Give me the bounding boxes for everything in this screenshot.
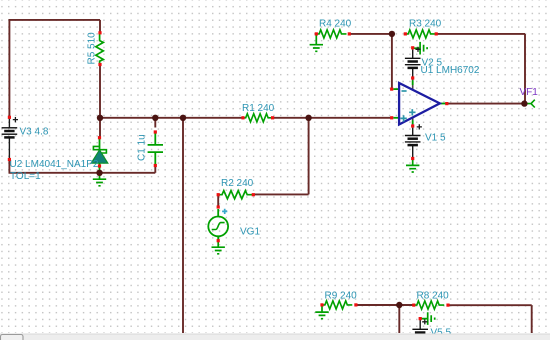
wire R9 junction R8 xyxy=(356,304,414,306)
terminal mark V3 + terminal xyxy=(8,116,11,119)
terminal mark U1 noninverting input pin xyxy=(390,116,393,119)
terminal mark V1 - terminal xyxy=(411,157,414,160)
battery V1 xyxy=(405,128,421,158)
terminal mark R3 pin 2 xyxy=(435,32,438,35)
wire op-amp output to VF1 xyxy=(447,103,525,105)
op-amp U1 pins xyxy=(393,77,446,129)
resistor R9 xyxy=(322,301,353,309)
source VG1 xyxy=(208,209,228,241)
terminal mark V3 - terminal xyxy=(8,158,11,161)
battery V3 xyxy=(2,119,18,159)
terminal mark R4 pin 1 xyxy=(315,32,318,35)
wire vertical down from R9/R8 junction xyxy=(398,305,400,333)
wire R8 right horizontal xyxy=(448,304,532,306)
terminal mark R5 pin 2 xyxy=(98,63,101,66)
wire V3 bottom to corner xyxy=(8,159,10,173)
plus V1 xyxy=(417,124,422,129)
wire R4 to junction xyxy=(349,33,392,35)
wire junction down to inverting input xyxy=(391,34,393,89)
resistor R4 xyxy=(316,30,347,38)
terminal mark V5 + terminal xyxy=(419,317,422,320)
terminal mark VG1 + terminal xyxy=(217,205,220,208)
terminal mark R1 pin 2 xyxy=(271,116,274,119)
junction main/long vertical xyxy=(180,115,186,121)
minus sign inverting input xyxy=(402,90,407,92)
resistor R8 xyxy=(414,301,445,309)
junction R4/R3 node xyxy=(389,31,395,37)
junction node VF1 xyxy=(521,100,527,106)
wire feedback vertical down to VF1 xyxy=(524,34,526,104)
wire top-left horizontal xyxy=(9,19,100,21)
capacitor C1 xyxy=(148,132,163,165)
terminal mark U2 anode pin xyxy=(98,164,101,167)
resistor R1 xyxy=(243,114,274,122)
junction R9/R8/vertical xyxy=(396,302,402,308)
wire junction to C1 top xyxy=(154,118,156,128)
svg-text:V3 4.8: V3 4.8 xyxy=(20,127,49,138)
wire R5 bottom to diode top xyxy=(99,65,101,138)
ground at R4 left xyxy=(315,36,317,40)
wire main horizontal right part xyxy=(273,117,392,119)
ground below V1 xyxy=(406,160,419,173)
junction at C1 top xyxy=(152,115,158,121)
terminal mark R5 pin 1 xyxy=(98,31,101,34)
terminal mark U2 cathode pin xyxy=(98,136,101,139)
plus V5 xyxy=(422,319,427,324)
svg-text:U2 LM4041_NA1P2: U2 LM4041_NA1P2 xyxy=(10,159,99,170)
wire bottom right vertical xyxy=(531,305,533,333)
terminal mark R8 pin 1 xyxy=(412,304,415,307)
battery V2 xyxy=(405,50,421,78)
terminal mark U1 output pin xyxy=(445,102,448,105)
resistor R2 xyxy=(218,191,253,199)
svg-text:R8 240: R8 240 xyxy=(417,290,450,301)
bottom gray strip xyxy=(0,334,550,340)
junction main/R2 branch xyxy=(305,115,311,121)
terminal mark C1 pin 2 xyxy=(154,164,157,167)
terminal mark R8 pin 2 xyxy=(446,304,449,307)
svg-text:TOL=1: TOL=1 xyxy=(10,171,41,182)
battery V5 xyxy=(412,320,428,333)
terminal mark R9 pin 1 xyxy=(320,303,323,306)
bottom-left tab xyxy=(1,335,24,340)
terminal mark V2 - terminal / U1 V+ pin xyxy=(411,76,414,79)
ground at R9 left xyxy=(315,306,328,319)
diode U2 xyxy=(91,138,108,173)
terminal mark R1 pin 1 xyxy=(241,116,244,119)
terminal mark C1 pin 1 xyxy=(154,130,157,133)
plus V3 xyxy=(13,117,18,122)
terminal mark R2 pin 1 xyxy=(217,193,220,196)
op-amp U1 triangle xyxy=(399,83,440,125)
wire left vertical to V3 top xyxy=(8,19,10,117)
svg-text:R5 510: R5 510 xyxy=(86,32,97,65)
wire long vertical down from main xyxy=(182,118,184,333)
terminal mark R9 pin 2 xyxy=(354,303,357,306)
svg-text:R4 240: R4 240 xyxy=(319,18,352,29)
resistor R3 xyxy=(405,30,436,38)
terminal mark U1 inverting input pin xyxy=(390,88,393,91)
wire R3 right to corner xyxy=(436,33,525,35)
svg-text:R1 240: R1 240 xyxy=(242,103,275,114)
terminal mark VG1 - terminal xyxy=(217,239,220,242)
wire main horizontal left part xyxy=(100,117,243,119)
wire bottom-left horizontal xyxy=(9,172,156,174)
node VF1 probe xyxy=(527,100,535,108)
svg-text:R2 240: R2 240 xyxy=(221,178,254,189)
ground below diode xyxy=(93,173,106,186)
ground right of V2 top xyxy=(413,42,427,55)
plus sign supply pin xyxy=(409,109,415,115)
wire up to C1 bottom xyxy=(154,166,156,173)
junction diode/ground/bottom wire xyxy=(96,170,102,176)
plus VG1 xyxy=(222,209,227,214)
terminal mark U1 V- pin xyxy=(411,124,414,127)
wire R2 branch horizontal xyxy=(253,193,308,195)
junction at R5/main wire xyxy=(97,115,103,121)
wire R2 to VG1 xyxy=(217,195,219,207)
wire R2 branch vertical xyxy=(308,118,310,195)
plus V2 xyxy=(415,47,420,52)
terminal mark R4 pin 2 xyxy=(348,32,351,35)
resistor R5 xyxy=(96,34,103,64)
svg-text:VG1: VG1 xyxy=(240,227,260,238)
svg-text:V1 5: V1 5 xyxy=(425,132,446,143)
svg-text:VF1: VF1 xyxy=(520,87,539,98)
wire top to R5 xyxy=(99,20,101,33)
svg-text:R9 240: R9 240 xyxy=(325,290,358,301)
svg-text:C1 1u: C1 1u xyxy=(136,134,147,161)
svg-text:R3 240: R3 240 xyxy=(409,18,442,29)
svg-text:U1 LMH6702: U1 LMH6702 xyxy=(421,65,480,76)
ground right of V5 top xyxy=(421,312,435,325)
ground below VG1 xyxy=(212,241,225,254)
terminal mark R3 pin 1 xyxy=(404,32,407,35)
terminal mark R2 pin 2 xyxy=(252,193,255,196)
terminal mark V2 + terminal xyxy=(411,46,414,49)
plus sign noninverting input xyxy=(400,115,406,121)
